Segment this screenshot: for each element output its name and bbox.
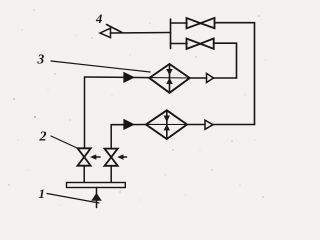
- valve V1 upper bowtie: [187, 18, 215, 28]
- D2 internal arrow down: [164, 116, 169, 122]
- wire inner vertical to check triangle T1: [214, 77, 237, 79]
- lower diamond D2 (conditioner): [146, 110, 187, 139]
- wire right outer to check triangle T2: [213, 124, 255, 126]
- D1 internal arrow down: [167, 69, 172, 75]
- faint paper texture specks: [17, 29, 265, 205]
- check triangle T2: [205, 120, 213, 129]
- V3 actuator arrow: [91, 155, 100, 160]
- valve V2 lower bowtie: [187, 39, 214, 49]
- vent triangle (outlet 4): [100, 28, 111, 37]
- bottom supply line: [96, 188, 98, 208]
- wire manifold to valve V2: [171, 43, 188, 45]
- D1 internal arrow up: [167, 78, 172, 83]
- wire lower input horizontal: [111, 124, 146, 126]
- wire right outer vertical: [254, 23, 256, 125]
- wire upper input horizontal: [85, 76, 150, 79]
- check triangle T1: [207, 73, 214, 82]
- leader line 2: [51, 136, 77, 148]
- manifold bar: [67, 183, 126, 188]
- wire T1 to upper diamond: [190, 77, 207, 79]
- wire V4 to bar: [110, 166, 112, 183]
- wire T2 to lower diamond: [187, 124, 205, 126]
- wire through D2: [146, 123, 187, 125]
- svg-text:3: 3: [37, 52, 45, 67]
- svg-text:1: 1: [39, 186, 46, 201]
- leader line 4: [107, 25, 123, 33]
- svg-text:4: 4: [95, 12, 102, 26]
- wire V3 to bar: [83, 166, 85, 183]
- leader line 1: [47, 194, 99, 204]
- wire left manifold vertical: [170, 19, 172, 49]
- wire vent to inlet manifold: [111, 32, 171, 35]
- flow arrow A1 on upper input: [124, 72, 134, 82]
- wire right inner vertical: [236, 43, 238, 78]
- wire left feed vertical: [84, 77, 86, 148]
- supply arrow up: [92, 194, 101, 201]
- leader line 3: [51, 61, 150, 72]
- valve V3 left vertical bowtie: [78, 148, 91, 165]
- wire manifold to valve V1: [171, 22, 188, 24]
- D2 internal arrow up: [164, 125, 169, 130]
- wire right feed vertical: [110, 125, 112, 149]
- wire V1 output to right: [215, 22, 255, 24]
- scan noise specks: [8, 9, 264, 198]
- svg-text:2: 2: [39, 130, 47, 145]
- wire V2 output to right: [214, 42, 237, 44]
- valve V4 right vertical bowtie: [105, 149, 118, 166]
- wire through D1: [149, 77, 189, 79]
- V4 actuator arrow: [118, 155, 127, 160]
- upper diamond D1 (conditioner): [149, 64, 189, 93]
- flow arrow A2 on lower input: [124, 119, 134, 129]
